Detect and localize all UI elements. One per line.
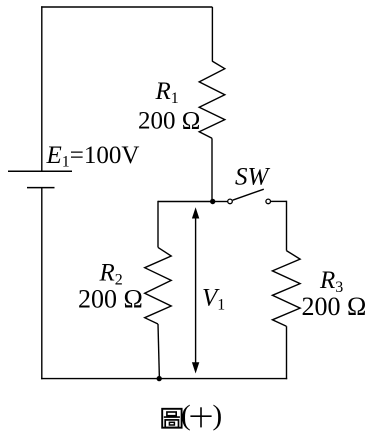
switch contact left — [228, 199, 233, 204]
svg-text:200 Ω: 200 Ω — [78, 285, 143, 314]
wire R1 top lead — [211, 7, 213, 61]
wire top — [41, 6, 212, 8]
caption figure(ten): drawn CJK glyph tu — [162, 409, 181, 428]
svg-text:E1=100V: E1=100V — [46, 142, 140, 171]
wire switch to right branch — [271, 200, 287, 202]
svg-text:(: ( — [181, 400, 191, 432]
arrowhead V1 top — [192, 207, 199, 218]
switch contact right — [266, 199, 271, 204]
resistor R3 — [272, 251, 300, 327]
resistor R1 — [199, 61, 225, 138]
svg-text:200 Ω: 200 Ω — [138, 108, 200, 135]
wire left upper — [41, 6, 43, 171]
arrowhead V1 bottom — [192, 362, 199, 373]
wire R3 bottom lead — [286, 326, 288, 379]
voltage arrow V1 — [195, 217, 197, 365]
caption cross glyph ten — [190, 407, 211, 427]
wire node to R2 branch — [158, 201, 213, 203]
svg-text:SW: SW — [235, 164, 271, 191]
wire bottom — [41, 378, 287, 380]
node junction at switch — [210, 199, 215, 204]
resistor R2 — [145, 247, 172, 324]
wire R2 top lead — [157, 201, 159, 248]
svg-text:200 Ω: 200 Ω — [302, 292, 367, 321]
battery E1 short plate — [27, 187, 55, 189]
svg-text:): ) — [213, 400, 223, 432]
wire R1 bottom lead — [211, 138, 213, 201]
battery E1 long plate — [8, 170, 72, 172]
wire R3 top lead — [286, 201, 288, 251]
switch SW blade — [233, 189, 264, 200]
wire junction to switch — [213, 201, 228, 203]
wire R2 bottom lead — [158, 324, 159, 379]
node junction bottom — [157, 376, 162, 381]
wire left lower — [41, 188, 43, 380]
